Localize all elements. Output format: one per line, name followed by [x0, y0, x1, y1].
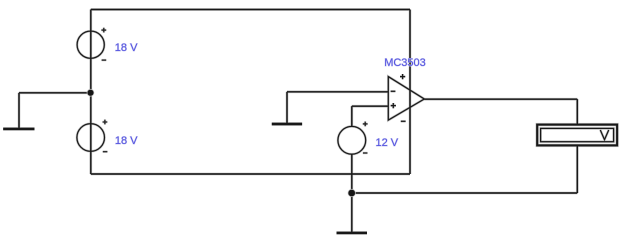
svg-text:MC3503: MC3503: [384, 57, 426, 69]
svg-text:18 V: 18 V: [115, 135, 138, 147]
svg-text:18 V: 18 V: [115, 42, 138, 54]
svg-text:12 V: 12 V: [376, 137, 399, 149]
